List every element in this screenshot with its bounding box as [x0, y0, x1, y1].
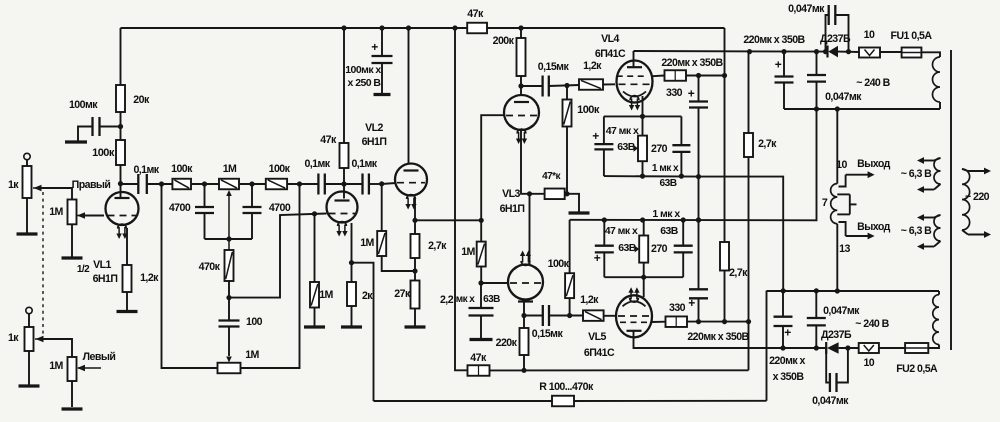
ground (1М right) — [62, 224, 83, 258]
label Выход (upper) — [857, 158, 890, 170]
wire VL2A anode — [343, 184, 345, 199]
tube VL2B — [395, 28, 427, 210]
diode Д237Б (VD1) — [820, 33, 851, 58]
svg-text:6Н1П: 6Н1П — [500, 203, 525, 215]
capacitor 100мк х 250В — [345, 28, 392, 95]
wire VL5 grid — [604, 315, 616, 317]
wire B+ to 47k — [455, 28, 468, 370]
svg-text:200к: 200к — [493, 35, 515, 47]
ground (1,2к) — [117, 292, 138, 312]
wire VL3B grid — [481, 282, 509, 284]
wire B+ drop — [724, 28, 726, 242]
wire VL5 anode — [634, 331, 827, 348]
capacitor 220мк х 350В (PSU1) — [775, 49, 794, 109]
wire PSU1 return rail — [784, 106, 940, 111]
wire bottom-right leg — [241, 184, 300, 368]
resistor 47к (rail) — [467, 8, 487, 33]
svg-text:0,047мк: 0,047мк — [788, 3, 825, 15]
junction rail/VL2 anode — [406, 25, 411, 30]
junction VL2B grid — [379, 181, 395, 186]
label 220мк х 350В (VL5 screen) — [687, 331, 749, 343]
capacitor 0,1мк (a) — [121, 164, 173, 194]
resistor 1М (VL2A grid leak) — [304, 211, 334, 327]
wire wiper2 — [43, 339, 72, 357]
wire to VL2A grid — [229, 214, 327, 298]
svg-text:63В: 63В — [618, 242, 637, 254]
svg-text:270: 270 — [651, 143, 668, 155]
ground (47*к) — [569, 211, 590, 214]
capacitor 1мк х 63В (VL4) — [652, 116, 691, 189]
wire cathode top rail — [604, 115, 682, 117]
wire seg — [191, 183, 219, 185]
svg-text:1,2к: 1,2к — [583, 60, 602, 72]
resistor 270 (VL4) — [634, 136, 668, 179]
label 220мк х 350В (VL4 screen) — [661, 57, 723, 69]
svg-text:~ 6,3 В: ~ 6,3 В — [901, 168, 933, 180]
capacitor 0,15мк (a) — [521, 61, 579, 97]
svg-text:VL1: VL1 — [93, 259, 111, 271]
resistor 1,2к — [123, 265, 160, 292]
label VL5 — [584, 331, 615, 359]
svg-text:VL5: VL5 — [588, 331, 606, 343]
svg-text:1М: 1М — [360, 237, 374, 249]
svg-text:100к: 100к — [171, 163, 193, 175]
tube VL3A — [504, 95, 539, 144]
svg-text:100мк х: 100мк х — [345, 64, 381, 76]
resistor 2,7к (lower) — [720, 242, 748, 324]
winding ~240В (lower) — [933, 291, 939, 345]
potentiometer 100к (VL4 bal) — [563, 86, 600, 194]
wire 4700 common — [205, 238, 253, 240]
resistor 47*к — [542, 171, 579, 212]
wire VL3 cathodes — [521, 131, 545, 265]
svg-text:+: + — [688, 296, 695, 310]
junction cap 100мк — [118, 124, 123, 129]
resistor 1М (VL3) — [461, 242, 486, 286]
svg-text:0,047мк: 0,047мк — [812, 395, 849, 407]
svg-text:1к: 1к — [8, 332, 19, 344]
label Левый + wiper arrow — [77, 351, 115, 371]
wire OT primary line — [836, 109, 838, 291]
wire VL3A grid — [479, 115, 505, 241]
svg-text:220мк х 350В: 220мк х 350В — [687, 331, 749, 343]
ground (100мк) — [65, 140, 87, 143]
svg-text:330: 330 — [669, 302, 686, 314]
wire bottom rail — [374, 291, 767, 401]
label Выход (lower) — [857, 221, 890, 233]
svg-text:6П41С: 6П41С — [584, 347, 615, 359]
wire hum rail — [570, 109, 817, 220]
svg-text:63В: 63В — [617, 141, 636, 153]
wiper arrow into 1М — [77, 212, 86, 218]
svg-text:6Н1П: 6Н1П — [93, 273, 118, 285]
svg-text:FU1 0,5А: FU1 0,5А — [891, 30, 933, 42]
svg-text:R 100...470к: R 100...470к — [539, 381, 594, 393]
svg-text:Д237Б: Д237Б — [821, 329, 852, 341]
svg-text:270: 270 — [651, 243, 668, 255]
diode Д237Б (VD2) — [821, 329, 852, 354]
label VL2 — [362, 122, 387, 148]
svg-text:~ 220: ~ 220 — [965, 191, 990, 203]
svg-text:100: 100 — [246, 316, 263, 328]
junction right leg — [297, 181, 302, 186]
wire seg — [239, 183, 266, 185]
wire cathode bottom rail — [604, 175, 700, 178]
label VL1 — [77, 259, 118, 285]
potentiometer 1к (right) — [8, 166, 42, 198]
resistor 1М (VL2B) — [360, 184, 415, 271]
resistor 20к — [116, 85, 150, 112]
resistor 1М (grid right) — [49, 200, 76, 225]
svg-text:6Н1П: 6Н1П — [362, 136, 387, 148]
fuse FU1 0,5А — [891, 30, 940, 58]
svg-text:6П41С: 6П41С — [595, 48, 626, 60]
capacitor 0,047мк (PSU2 b) — [807, 291, 860, 351]
resistor 2к — [341, 263, 373, 327]
wire top supply rail — [121, 27, 725, 29]
svg-text:1,2к: 1,2к — [580, 294, 599, 306]
wire VL5 cathode rail — [604, 275, 683, 280]
winding ~6,3В (1) — [901, 157, 941, 193]
svg-text:100мк: 100мк — [69, 99, 98, 111]
svg-text:Левый: Левый — [83, 351, 116, 363]
resistor 330 (VL5) — [666, 302, 749, 327]
svg-text:2,7к: 2,7к — [729, 267, 748, 279]
resistor 2,7к (VL2B) — [411, 220, 448, 273]
node Правый — [72, 179, 123, 191]
node 10 — [836, 159, 847, 171]
junction B+ node — [747, 49, 752, 54]
wire VL2B cathode — [412, 198, 481, 223]
svg-text:1М: 1М — [319, 289, 333, 301]
wire VL5 cathode — [643, 277, 645, 297]
svg-text:1М: 1М — [461, 246, 475, 258]
svg-text:7: 7 — [822, 197, 828, 209]
svg-text:2,2: 2,2 — [440, 294, 454, 306]
svg-text:+: + — [784, 326, 791, 340]
resistor R 100...470к — [539, 381, 594, 406]
svg-text:47 мк х: 47 мк х — [606, 125, 639, 137]
svg-text:1М: 1М — [49, 360, 63, 372]
svg-text:4700: 4700 — [169, 202, 191, 214]
svg-text:10: 10 — [863, 357, 874, 369]
svg-text:х 250 В: х 250 В — [348, 77, 382, 89]
wire VL5 screen — [652, 321, 666, 323]
svg-text:+: + — [594, 251, 601, 265]
svg-text:13: 13 — [839, 243, 850, 255]
input jack 2 — [26, 307, 32, 327]
svg-text:100к: 100к — [548, 258, 570, 270]
svg-text:330: 330 — [666, 87, 683, 99]
resistor 47к (VL2A load) — [320, 28, 348, 184]
resistor 47к (fb) — [468, 352, 749, 376]
fuse FU2 0,5А — [896, 343, 939, 375]
input jack 1 — [24, 153, 30, 166]
capacitor 4700 (b) — [243, 184, 291, 239]
potentiometer 100к (bass2) — [266, 163, 291, 189]
svg-text:100к: 100к — [92, 147, 115, 159]
capacitor 0,047мк (PSU1 b) — [807, 49, 862, 109]
svg-text:VL3: VL3 — [502, 188, 520, 200]
svg-text:0,1мк: 0,1мк — [133, 164, 159, 176]
capacitor 0,1мк (c) — [344, 158, 382, 195]
resistor 270 (VL5) — [635, 220, 668, 277]
svg-text:0,047мк: 0,047мк — [823, 305, 860, 317]
svg-text:0,047мк: 0,047мк — [825, 91, 862, 103]
potentiometer 1М (treble) — [219, 163, 239, 189]
svg-text:10: 10 — [836, 159, 847, 171]
potentiometer 1,2к (VL5) — [580, 294, 604, 321]
svg-text:Д237Б: Д237Б — [820, 33, 851, 45]
junction rail/47k — [341, 25, 346, 30]
wire VL1 cathode — [126, 228, 128, 265]
potentiometer 1к (left) — [8, 327, 44, 351]
capacitor 0,047мк (over VD2) — [812, 345, 850, 407]
svg-text:63В: 63В — [483, 294, 500, 305]
wire 100k-node — [120, 165, 122, 184]
resistor 1М (grid left) — [49, 357, 76, 381]
inductor OT primary — [831, 184, 838, 224]
wire 20k-100k — [120, 112, 122, 140]
gang dashed link — [42, 192, 44, 334]
capacitor 220мк (VL4 screen) — [688, 73, 708, 289]
svg-text:1/2: 1/2 — [77, 264, 90, 275]
capacitor 0,1мк (b) — [304, 158, 344, 195]
svg-text:0,1мк: 0,1мк — [351, 158, 377, 170]
junction 470к bottom — [226, 281, 231, 321]
wire output tap 10 — [839, 171, 875, 186]
svg-text:FU2 0,5А: FU2 0,5А — [896, 363, 938, 375]
junction rail/100uF — [379, 25, 384, 30]
junction hum dots — [602, 217, 701, 222]
resistor 220к — [496, 328, 529, 373]
wire VL4 anode — [634, 51, 828, 67]
svg-text:27к: 27к — [394, 288, 411, 300]
wire bottom-left leg — [162, 184, 218, 368]
svg-text:~ 240 В: ~ 240 В — [856, 77, 890, 89]
junction VL4 grid node — [564, 83, 569, 88]
potentiometer 470к — [199, 250, 234, 281]
tube VL2A — [327, 192, 358, 237]
resistor 100к (feedback) — [92, 140, 125, 165]
svg-text:0,15мк: 0,15мк — [538, 61, 570, 73]
junction left leg — [159, 181, 164, 186]
wire VL4 screen — [652, 75, 664, 78]
wire 1M-grid VL1 — [85, 215, 104, 217]
transformer core — [950, 50, 952, 350]
svg-text:220мк х 350В: 220мк х 350В — [743, 34, 805, 46]
wire ground spine right — [700, 177, 783, 291]
winding ~220 — [962, 168, 991, 238]
capacitor 47мк х 63В (VL4) — [592, 116, 639, 176]
svg-text:+: + — [371, 40, 378, 54]
potentiometer 100к (bass1) — [171, 163, 193, 189]
capacitor 100мк — [69, 99, 121, 141]
svg-text:2,7к: 2,7к — [758, 138, 777, 150]
tube VL3B — [508, 251, 543, 302]
potentiometer 1,2к (VL4) — [579, 60, 615, 90]
svg-text:47к: 47к — [467, 8, 484, 20]
winding ~240В (upper) — [856, 57, 940, 109]
resistor 2,7к (upper) — [744, 52, 777, 371]
svg-text:2к: 2к — [362, 290, 373, 302]
node 13 — [839, 243, 850, 255]
capacitor 47мк х 63В (VL5) — [594, 220, 638, 277]
svg-text:х 350В: х 350В — [773, 371, 805, 383]
winding ~6,3В (2) — [901, 214, 941, 250]
svg-text:~ 6,3 В: ~ 6,3 В — [901, 225, 933, 237]
svg-text:100к: 100к — [577, 104, 600, 116]
wire wiper1 — [41, 188, 72, 200]
junction rail/200k — [518, 25, 523, 30]
svg-text:VL4: VL4 — [601, 33, 619, 45]
resistor 330 (VL4) — [665, 70, 728, 99]
svg-text:47к: 47к — [470, 352, 487, 364]
svg-text:47к: 47к — [320, 134, 337, 146]
capacitor 220мк х 350В (PSU2) — [769, 291, 805, 383]
resistor 10 (PSU1) — [838, 29, 902, 58]
junction VL3A anode — [518, 76, 523, 95]
svg-text:+: + — [688, 87, 695, 101]
svg-text:10: 10 — [864, 29, 875, 41]
label 220мк х 350В (PSU1) — [743, 34, 805, 46]
junction 4700b — [249, 181, 254, 186]
svg-text:0,1мк: 0,1мк — [304, 158, 330, 170]
label ~240В (lower) — [855, 318, 889, 330]
resistor 10 (PSU2) — [839, 343, 906, 369]
wire VL2A cathode — [349, 223, 374, 401]
svg-text:63В: 63В — [659, 178, 676, 189]
svg-text:+: + — [775, 58, 782, 72]
wire VL4 cathode — [640, 96, 645, 136]
svg-text:+: + — [592, 129, 599, 143]
junction rail/455 line — [452, 25, 457, 30]
svg-text:2,7к: 2,7к — [428, 240, 447, 252]
svg-text:1,2к: 1,2к — [140, 272, 159, 284]
tube VL5 — [616, 287, 652, 337]
svg-text:63В: 63В — [660, 225, 679, 237]
svg-text:220мк х: 220мк х — [769, 355, 805, 367]
potentiometer 100к (VL5 bal) — [548, 220, 574, 316]
svg-text:мк х: мк х — [456, 294, 476, 305]
junction VL2A anode node — [341, 181, 346, 186]
svg-text:100к: 100к — [269, 163, 291, 175]
capacitor 1мк х 63В (VL5) — [652, 208, 692, 277]
wire VL3B anode — [521, 300, 526, 328]
svg-text:Выход: Выход — [857, 221, 890, 233]
svg-text:1 мк х: 1 мк х — [652, 163, 679, 174]
svg-text:1М: 1М — [49, 206, 63, 218]
capacitor 100 — [219, 316, 263, 356]
svg-text:1М: 1М — [245, 349, 259, 361]
svg-text:20к: 20к — [133, 94, 150, 106]
capacitor 2,2мк х 63В — [440, 283, 500, 340]
svg-text:220к: 220к — [496, 337, 518, 349]
ground (1М left) — [62, 381, 83, 409]
wire output tap 13 — [839, 222, 875, 239]
svg-text:Правый: Правый — [72, 179, 111, 191]
wiper 1М down — [226, 190, 232, 250]
wire feedback drop — [120, 28, 122, 85]
capacitor 0,047мк (over VD1) — [788, 3, 851, 54]
capacitor 220мк (VL5 screen) — [688, 289, 708, 321]
svg-text:1 мк х: 1 мк х — [652, 208, 680, 220]
wire OT to PSU2 — [767, 288, 940, 293]
svg-text:~ 240 В: ~ 240 В — [855, 318, 889, 330]
junction 4700a — [202, 181, 207, 186]
node 7 — [822, 197, 828, 209]
tube VL1 — [106, 184, 139, 239]
ground (pot2) — [19, 351, 40, 386]
svg-text:47*к: 47*к — [542, 171, 561, 182]
svg-text:220мк х 350В: 220мк х 350В — [661, 57, 723, 69]
svg-text:4700: 4700 — [269, 202, 291, 214]
wire seg — [287, 183, 318, 185]
svg-text:470к: 470к — [199, 261, 221, 273]
potentiometer 1М (bottom) — [218, 349, 260, 373]
resistor 27к — [394, 271, 425, 327]
tube VL4 — [617, 61, 653, 111]
svg-text:0,15мк: 0,15мк — [532, 328, 564, 340]
svg-text:47 мк х: 47 мк х — [605, 225, 638, 237]
svg-text:1к: 1к — [8, 179, 19, 191]
svg-text:Выход: Выход — [857, 158, 890, 170]
svg-text:1М: 1М — [223, 163, 237, 175]
ground (pot1) — [17, 198, 38, 234]
resistor 200к — [493, 28, 526, 76]
wiper arrow 1М bottom — [226, 357, 232, 363]
winding OT secondary — [837, 194, 856, 214]
svg-text:VL2: VL2 — [365, 122, 383, 134]
label VL3 — [500, 188, 525, 215]
capacitor 4700 (a) — [169, 184, 214, 239]
capacitor 0,15мк (b) — [524, 305, 583, 340]
junction caps-wiper — [226, 236, 231, 241]
label VL4 — [595, 33, 626, 60]
